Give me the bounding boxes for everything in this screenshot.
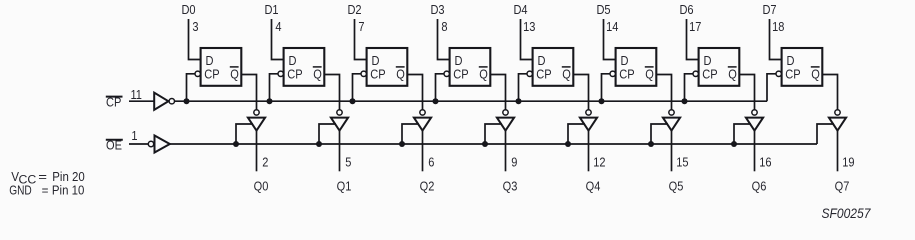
junction on CP rail at FF7 (682, 98, 688, 104)
FF1 clock inversion bubble (195, 71, 200, 76)
svg-text:CP: CP (536, 67, 551, 82)
svg-text:D2: D2 (347, 2, 361, 17)
wire FF1 Q-bar output to buffer B1 (241, 75, 256, 110)
FF7 clock inversion bubble (693, 71, 698, 76)
3-state buffer B2 (331, 118, 348, 131)
junction on CP rail at FF1 (184, 98, 190, 104)
svg-text:2: 2 (262, 154, 268, 169)
svg-text:D7: D7 (762, 2, 776, 17)
wire OE rail to B5 enable (568, 124, 585, 144)
3-state buffer B2 input bubble (337, 110, 342, 115)
svg-text:Q2: Q2 (420, 179, 435, 194)
svg-text:GND: GND (9, 183, 32, 197)
svg-text:CP: CP (619, 67, 634, 82)
svg-text:Pin 10: Pin 10 (52, 183, 85, 198)
buffer U2 (output enable) (155, 136, 170, 153)
wire FF3 Q-bar output to buffer B3 (407, 75, 422, 110)
wire FF4 Q-bar output to buffer B4 (490, 75, 505, 110)
wire B7 output to Q6 pin (754, 131, 756, 172)
svg-text:Q: Q (230, 67, 239, 82)
wire FF8 Q-bar output to buffer B8 (822, 75, 837, 110)
junction on CP rail at FF3 (350, 98, 356, 104)
svg-text:D6: D6 (679, 2, 693, 17)
wire B2 output to Q1 pin (339, 131, 341, 172)
svg-text:14: 14 (606, 19, 619, 34)
svg-text:Q: Q (396, 67, 405, 82)
junction on OE rail at B1 (233, 141, 239, 147)
flip-flop FF4 outline (450, 48, 491, 86)
3-state buffer B1 input bubble (254, 110, 259, 115)
3-state buffer B3 (414, 118, 431, 131)
wire CP input to inverter U1 (129, 100, 155, 102)
svg-text:Q6: Q6 (752, 179, 767, 194)
svg-text:Q0: Q0 (254, 179, 269, 194)
FF6 clock inversion bubble (610, 71, 615, 76)
wire CP rail to FF1 clock (187, 74, 195, 101)
svg-text:16: 16 (759, 154, 772, 169)
svg-text:Q: Q (811, 67, 820, 82)
inverter U1 output bubble (169, 99, 174, 104)
wire OE rail to B1 enable (236, 124, 253, 144)
wire CP rail to FF6 clock (602, 74, 610, 101)
3-state buffer B4 input bubble (503, 110, 508, 115)
svg-text:=: = (42, 183, 49, 198)
wire D1 pin to FF2 D input (272, 19, 285, 60)
net label OE (output enable, active low) (106, 138, 123, 153)
svg-text:3: 3 (192, 19, 198, 34)
wire OE rail to B2 enable (319, 124, 336, 144)
svg-text:18: 18 (772, 19, 785, 34)
svg-text:9: 9 (511, 154, 517, 169)
3-state buffer B8 (829, 118, 846, 131)
svg-text:17: 17 (689, 19, 702, 34)
svg-text:6: 6 (428, 154, 434, 169)
junction on OE rail at B3 (399, 141, 405, 147)
svg-text:1: 1 (131, 128, 137, 143)
FF3 label Q-bar (396, 67, 405, 82)
3-state buffer B5 input bubble (586, 110, 591, 115)
FF8 clock inversion bubble (776, 71, 781, 76)
3-state buffer B7 input bubble (752, 110, 757, 115)
3-state buffer B8 input bubble (835, 110, 840, 115)
svg-text:Q: Q (645, 67, 654, 82)
wire FF2 Q-bar output to buffer B2 (324, 75, 339, 110)
wire OE rail to B3 enable (402, 124, 419, 144)
svg-text:CP: CP (287, 67, 302, 82)
FF5 clock inversion bubble (527, 71, 532, 76)
FF6 label Q-bar (645, 67, 654, 82)
svg-text:Q: Q (562, 67, 571, 82)
svg-text:4: 4 (275, 19, 281, 34)
junction on OE rail at B4 (482, 141, 488, 147)
wire B1 output to Q0 pin (256, 131, 258, 172)
net label CP (clock input, active edge) (106, 94, 123, 109)
svg-text:Q4: Q4 (586, 179, 601, 194)
svg-text:CP: CP (702, 67, 717, 82)
flip-flop FF3 outline (367, 48, 408, 86)
wire B3 output to Q2 pin (422, 131, 424, 172)
wire OE input to buffer U2 (129, 143, 148, 145)
wire D7 pin to FF8 D input (770, 19, 783, 60)
wire D5 pin to FF6 D input (604, 19, 617, 60)
svg-text:12: 12 (593, 154, 606, 169)
wire CP rail to FF7 clock (685, 74, 693, 101)
flip-flop FF8 outline (782, 48, 823, 86)
wire OE rail to B8 enable (817, 124, 834, 144)
note GND = Pin 10 (9, 183, 84, 198)
FF7 label Q-bar (728, 67, 737, 82)
wire OE rail to B6 enable (651, 124, 668, 144)
wire OE rail (170, 143, 817, 145)
wire D6 pin to FF7 D input (687, 19, 700, 60)
FF2 clock inversion bubble (278, 71, 283, 76)
FF5 label Q-bar (562, 67, 571, 82)
3-state buffer B1 (248, 118, 265, 131)
FF4 label Q-bar (479, 67, 488, 82)
3-state buffer B5 (580, 118, 597, 131)
junction on OE rail at B6 (648, 141, 654, 147)
svg-text:15: 15 (676, 154, 689, 169)
junction on CP rail at FF5 (516, 98, 522, 104)
svg-text:13: 13 (523, 19, 536, 34)
svg-text:Q: Q (479, 67, 488, 82)
wire FF5 Q-bar output to buffer B5 (573, 75, 588, 110)
FF8 label Q-bar (811, 67, 820, 82)
svg-text:8: 8 (441, 19, 447, 34)
svg-text:CP: CP (370, 67, 385, 82)
note VCC = Pin 20 (11, 169, 85, 187)
3-state buffer B7 (746, 118, 763, 131)
3-state buffer B6 (663, 118, 680, 131)
3-state buffer B6 input bubble (669, 110, 674, 115)
svg-text:Q: Q (728, 67, 737, 82)
svg-text:19: 19 (842, 154, 855, 169)
junction on OE rail at B2 (316, 141, 322, 147)
buffer U2 input bubble (148, 141, 153, 146)
flip-flop FF2 outline (284, 48, 325, 86)
svg-text:7: 7 (358, 19, 364, 34)
svg-text:Q7: Q7 (835, 179, 850, 194)
svg-text:CP: CP (204, 67, 219, 82)
wire FF6 Q-bar output to buffer B6 (656, 75, 671, 110)
wire CP rail to FF8 clock (767, 74, 776, 101)
svg-text:SF00257: SF00257 (822, 205, 872, 221)
flip-flop FF7 outline (699, 48, 740, 86)
FF3 clock inversion bubble (361, 71, 366, 76)
FF2 label Q-bar (313, 67, 322, 82)
wire CP rail to FF4 clock (436, 74, 444, 101)
FF1 label Q-bar (230, 67, 239, 82)
wire FF7 Q-bar output to buffer B7 (739, 75, 754, 110)
svg-text:Q1: Q1 (337, 179, 352, 194)
FF4 clock inversion bubble (444, 71, 449, 76)
flip-flop FF6 outline (616, 48, 657, 86)
wire D4 pin to FF5 D input (521, 19, 534, 60)
svg-text:11: 11 (130, 87, 142, 102)
svg-text:D1: D1 (264, 2, 278, 17)
wire CP rail (175, 100, 767, 102)
svg-text:Q: Q (313, 67, 322, 82)
svg-text:D5: D5 (596, 2, 610, 17)
wire OE rail to B7 enable (734, 124, 751, 144)
wire CP rail to FF5 clock (519, 74, 527, 101)
svg-text:=: = (38, 169, 47, 184)
3-state buffer B4 (497, 118, 514, 131)
wire OE rail to B4 enable (485, 124, 502, 144)
junction on OE rail at B7 (731, 141, 737, 147)
wire B5 output to Q4 pin (588, 131, 590, 172)
junction on CP rail at FF2 (267, 98, 273, 104)
svg-text:5: 5 (345, 154, 351, 169)
wire CP rail to FF2 clock (270, 74, 278, 101)
svg-text:Q3: Q3 (503, 179, 518, 194)
svg-text:D0: D0 (181, 2, 195, 17)
flip-flop FF1 outline (201, 48, 242, 86)
svg-text:Q5: Q5 (669, 179, 684, 194)
junction on CP rail at FF6 (599, 98, 605, 104)
wire B4 output to Q3 pin (505, 131, 507, 172)
svg-text:D4: D4 (513, 2, 527, 17)
svg-text:CP: CP (785, 67, 800, 82)
wire CP rail to FF3 clock (353, 74, 361, 101)
junction on CP rail at FF4 (433, 98, 439, 104)
3-state buffer B3 input bubble (420, 110, 425, 115)
wire D3 pin to FF4 D input (438, 19, 451, 60)
inverter U1 (clock) (154, 93, 168, 110)
junction on OE rail at B5 (565, 141, 571, 147)
wire D2 pin to FF3 D input (355, 19, 368, 60)
svg-text:CP: CP (453, 67, 468, 82)
flip-flop FF5 outline (533, 48, 574, 86)
svg-text:D3: D3 (430, 2, 444, 17)
wire B6 output to Q5 pin (671, 131, 673, 172)
wire B8 output to Q7 pin (837, 131, 839, 172)
wire D0 pin to FF1 D input (189, 19, 202, 60)
